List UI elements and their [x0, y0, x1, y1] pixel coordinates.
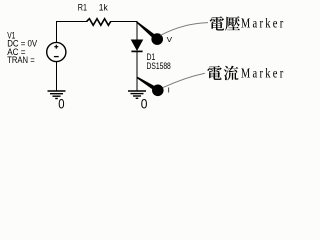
voltage source V1 reference label	[7, 31, 15, 42]
wire from source V1 bottom to left ground	[56, 62, 58, 91]
current marker probe dot	[152, 85, 164, 97]
voltage source V1 DC attribute label	[7, 39, 37, 50]
svg-text:1k: 1k	[99, 3, 108, 14]
leader line from voltage marker to callout text	[161, 23, 208, 36]
resistor R1 value label 1k	[99, 3, 108, 14]
svg-text:I: I	[168, 86, 170, 95]
svg-text:DS1588: DS1588	[147, 61, 171, 72]
svg-text:TRAN =: TRAN =	[7, 55, 35, 66]
svg-text:R1: R1	[78, 3, 87, 14]
left ground symbol (node 0)	[48, 91, 66, 99]
voltage source V1 TRAN attribute label	[7, 55, 35, 66]
voltage marker probe dot	[151, 33, 163, 45]
callout text: voltage marker (dian ya Marker)	[210, 15, 286, 31]
voltage source V1 minus sign	[54, 56, 59, 58]
voltage source V1 circle	[47, 42, 66, 61]
current marker probe tail on diode D1 cathode wire	[137, 77, 159, 92]
diode D1 triangle and cathode bar	[131, 40, 142, 52]
svg-text:Marker: Marker	[241, 65, 284, 81]
callout text: current marker (dian liu Marker)	[207, 65, 285, 81]
right ground symbol (node 0)	[128, 91, 146, 98]
wire from diode D1 cathode to right ground	[136, 51, 138, 91]
current marker I pin label	[168, 86, 170, 95]
voltage source V1 plus sign	[54, 45, 58, 49]
left ground node 0 label	[58, 96, 64, 112]
right ground node 0 label	[141, 96, 148, 112]
diode D1 reference label	[147, 52, 156, 63]
wire from resistor R1 right lead to diode D1 anode (top-right corner)	[110, 22, 137, 41]
svg-text:Marker: Marker	[241, 15, 284, 31]
voltage marker probe tail at node V	[136, 21, 158, 41]
svg-text:V: V	[167, 35, 173, 44]
voltage source V1 AC attribute label	[7, 47, 26, 58]
resistor R1 zigzag body	[87, 19, 111, 26]
svg-text:0: 0	[141, 96, 148, 112]
diode D1 value label DS1588	[147, 61, 171, 72]
leader line from current marker to callout text	[163, 73, 205, 87]
svg-text:0: 0	[58, 96, 64, 112]
wire from source V1 top to resistor R1 left lead	[57, 22, 88, 43]
voltage marker V pin label	[167, 35, 173, 44]
resistor R1 reference label	[78, 3, 87, 14]
